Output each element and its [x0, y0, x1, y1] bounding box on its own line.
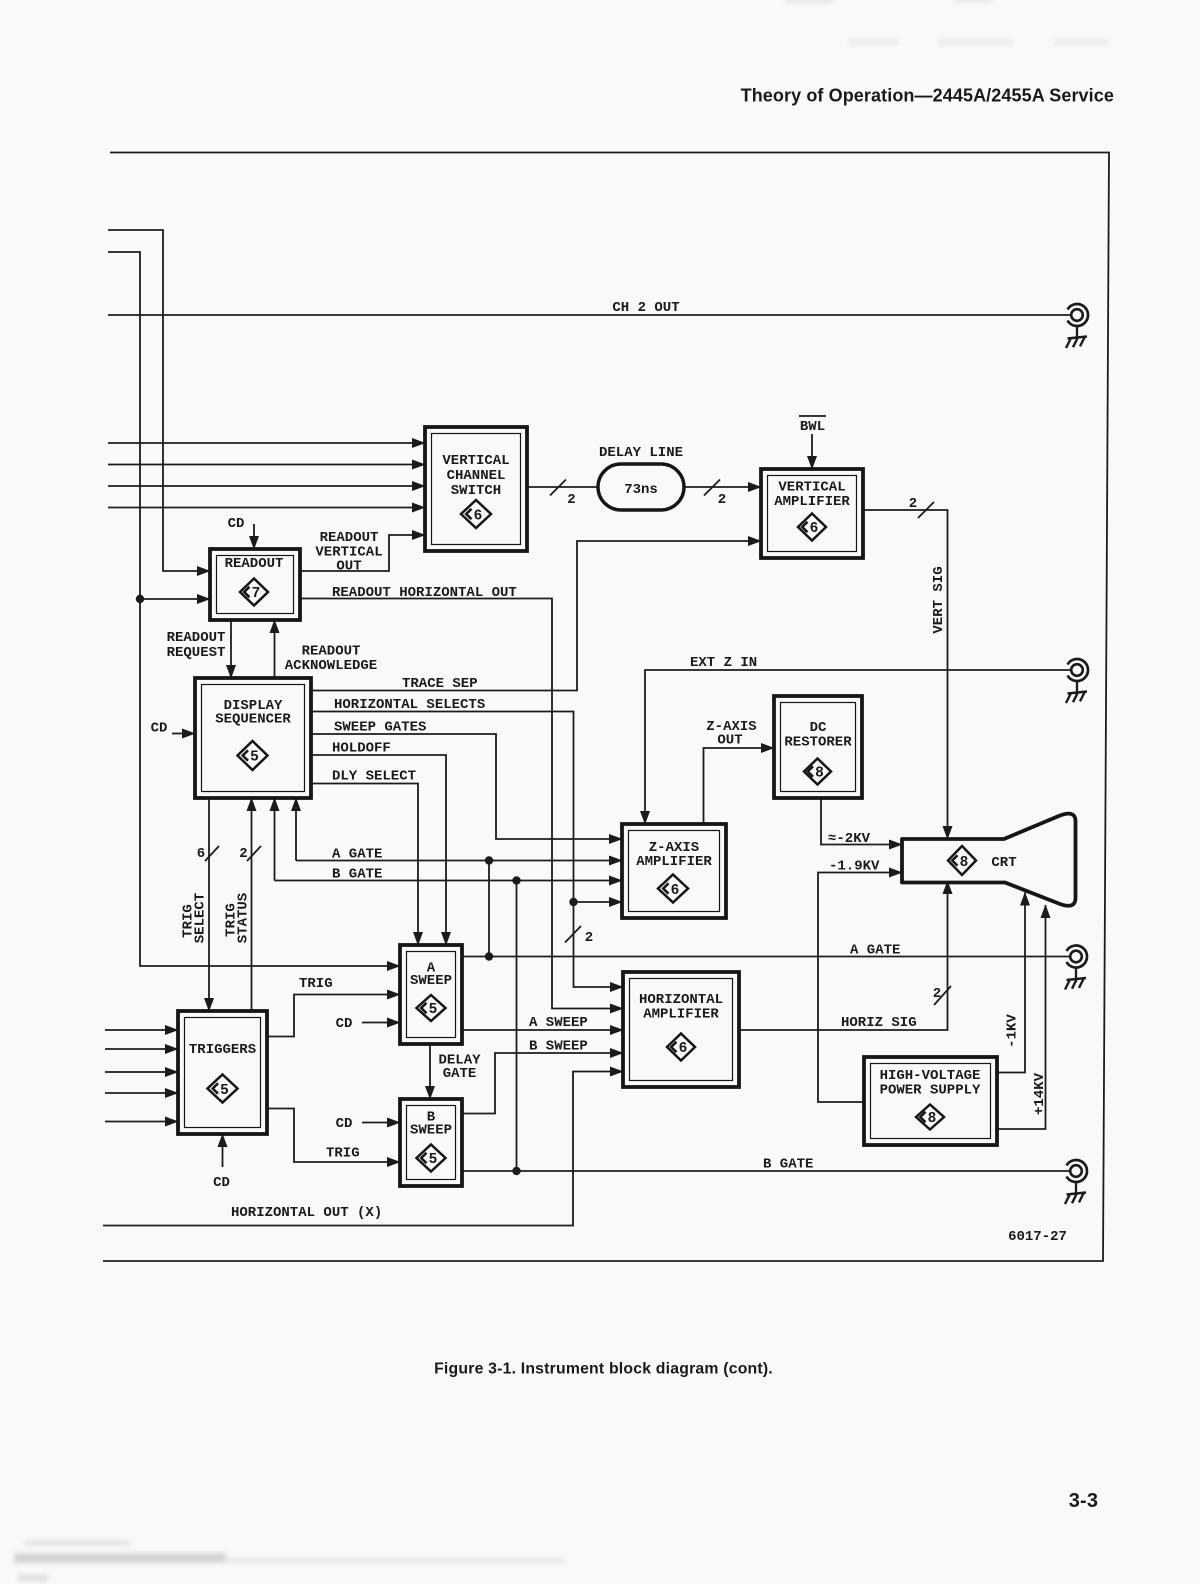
svg-text:≈-2KV: ≈-2KV	[828, 831, 871, 847]
svg-text:SWITCH: SWITCH	[451, 483, 501, 499]
svg-text:2: 2	[933, 986, 941, 1002]
wire triggers input 2	[105, 1048, 178, 1050]
svg-text:REQUEST: REQUEST	[167, 645, 226, 661]
block DC RESTORER	[774, 696, 862, 798]
wire triggers input 4	[105, 1092, 178, 1094]
frame (border, unlabeled)	[103, 153, 1109, 1262]
wire +14KV HV supply to CRT	[997, 905, 1048, 1129]
block READOUT	[210, 549, 300, 620]
svg-text:6: 6	[679, 1041, 688, 1057]
svg-text:8: 8	[928, 1111, 937, 1127]
wire VERT SIG to CRT	[863, 496, 948, 839]
wire vertical channel switch input 2	[108, 464, 425, 466]
svg-text:SEQUENCER: SEQUENCER	[215, 712, 291, 728]
block VERTICAL CHANNEL SWITCH	[425, 427, 527, 551]
svg-text:-1.9KV: -1.9KV	[829, 859, 880, 875]
block TRIGGERS	[178, 1011, 267, 1134]
wire A GATE branch	[296, 798, 622, 957]
svg-text:SWEEP GATES: SWEEP GATES	[334, 720, 426, 736]
svg-text:CRT: CRT	[991, 855, 1016, 871]
svg-text:RESTORER: RESTORER	[784, 735, 852, 751]
svg-text:2: 2	[718, 492, 726, 508]
svg-text:READOUT: READOUT	[225, 556, 284, 572]
wire CD into READOUT	[228, 516, 254, 549]
wire input to READOUT (lower) and to A SWEEP	[108, 252, 400, 966]
connector B GATE with ground	[1065, 1160, 1087, 1204]
wire HORIZONTAL SELECTS	[311, 697, 623, 987]
wire B GATE branch	[275, 798, 623, 1171]
delay line 73ns	[598, 445, 684, 510]
svg-text:5: 5	[250, 750, 259, 766]
svg-text:AMPLIFIER: AMPLIFIER	[774, 494, 850, 510]
svg-text:B SWEEP: B SWEEP	[529, 1039, 588, 1055]
wire HORIZ SIG to CRT	[739, 881, 951, 1031]
wire CD into A sweep	[336, 1016, 400, 1032]
svg-text:7: 7	[252, 586, 261, 602]
svg-text:BWL: BWL	[800, 419, 825, 435]
svg-text:AMPLIFIER: AMPLIFIER	[636, 854, 712, 870]
block DISPLAY SEQUENCER	[195, 678, 311, 798]
svg-text:DLY SELECT: DLY SELECT	[332, 769, 416, 785]
wire vertical channel switch input 4	[108, 507, 425, 509]
svg-text:2: 2	[567, 492, 575, 508]
svg-text:VERT SIG: VERT SIG	[931, 566, 947, 633]
wire triggers input 5	[105, 1121, 178, 1123]
wire DELAY GATE	[430, 1044, 481, 1099]
svg-text:8: 8	[960, 855, 969, 871]
svg-text:2: 2	[239, 846, 247, 862]
connector CH 2 OUT with ground	[1066, 304, 1088, 348]
svg-text:HORIZONTAL OUT (X): HORIZONTAL OUT (X)	[231, 1205, 382, 1221]
wire DLY SELECT	[311, 769, 418, 946]
svg-text:6: 6	[474, 509, 483, 525]
wire A SWEEP to horizontal amplifier	[462, 1015, 623, 1031]
connector EXT Z IN with ground	[1066, 659, 1088, 703]
wire triggers input 3	[105, 1071, 178, 1073]
svg-text:CD: CD	[228, 516, 245, 532]
wire B GATE from B sweep to connector	[462, 1157, 1070, 1173]
svg-text:SELECT: SELECT	[193, 893, 209, 943]
wire vertical channel switch input 1	[108, 442, 425, 444]
svg-text:TRACE SEP: TRACE SEP	[402, 676, 478, 692]
wire HOLDOFF	[311, 741, 446, 946]
wire READOUT VERTICAL OUT	[300, 530, 425, 575]
junction B gate at output line	[512, 1167, 520, 1175]
svg-text:5: 5	[429, 1152, 438, 1168]
wire Z-AXIS OUT to DC restorer	[704, 719, 775, 824]
block HORIZONTAL AMPLIFIER	[623, 972, 739, 1087]
svg-text:SWEEP: SWEEP	[410, 973, 452, 989]
svg-text:HORIZONTAL SELECTS: HORIZONTAL SELECTS	[334, 697, 485, 713]
svg-text:6: 6	[671, 883, 680, 899]
svg-text:HORIZ SIG: HORIZ SIG	[841, 1015, 917, 1031]
svg-text:OUT: OUT	[336, 559, 361, 575]
wire delay line to vertical amplifier	[684, 480, 761, 509]
wire vertical channel switch input 3	[108, 485, 425, 487]
svg-text:SWEEP: SWEEP	[410, 1123, 452, 1139]
svg-text:5: 5	[429, 1002, 438, 1018]
block B SWEEP	[400, 1099, 462, 1186]
svg-text:2: 2	[585, 930, 593, 946]
svg-text:2: 2	[909, 496, 917, 512]
svg-text:Figure 3-1. Instrument block d: Figure 3-1. Instrument block diagram (co…	[434, 1361, 773, 1378]
svg-text:READOUT: READOUT	[167, 630, 226, 646]
wire -1KV HV supply to CRT	[997, 893, 1025, 1073]
wire TRIG to B sweep	[267, 1109, 400, 1163]
junction B gate at upper line	[512, 876, 520, 884]
svg-text:A GATE: A GATE	[332, 847, 382, 863]
junction on READOUT input	[136, 595, 144, 603]
svg-text:AMPLIFIER: AMPLIFIER	[643, 1007, 719, 1023]
svg-text:CH 2 OUT: CH 2 OUT	[612, 300, 679, 316]
svg-text:6: 6	[197, 846, 205, 862]
wire HORIZONTAL OUT (X)	[103, 1072, 623, 1226]
wire READOUT ACKNOWLEDGE	[275, 620, 378, 678]
wire -2KV DC restorer to CRT	[821, 798, 902, 847]
wire CH 2 OUT	[108, 300, 1071, 316]
svg-text:6: 6	[810, 521, 819, 537]
svg-text:POWER SUPPLY: POWER SUPPLY	[880, 1083, 981, 1099]
svg-text:OUT: OUT	[717, 733, 742, 749]
wire TRIG SELECT	[181, 798, 220, 1011]
wire READOUT REQUEST	[167, 620, 231, 678]
svg-text:TRIG: TRIG	[326, 1146, 360, 1162]
svg-text:8: 8	[815, 766, 824, 782]
wire CD into B sweep	[336, 1116, 400, 1132]
block VERTICAL AMPLIFIER	[761, 469, 863, 558]
wire TRIG STATUS	[224, 798, 262, 1011]
junction A gate at output line	[485, 952, 493, 960]
wire SWEEP GATES	[311, 720, 622, 840]
svg-text:CD: CD	[336, 1116, 353, 1132]
svg-text:A GATE: A GATE	[850, 943, 900, 959]
wire READOUT HORIZONTAL OUT	[300, 585, 623, 1009]
svg-text:TRIGGERS: TRIGGERS	[189, 1042, 256, 1058]
svg-text:HOLDOFF: HOLDOFF	[332, 741, 391, 757]
svg-text:CD: CD	[151, 721, 168, 737]
wire -1.9KV HV supply to CRT	[818, 859, 902, 1103]
CRT	[902, 814, 1076, 906]
svg-text:+14KV: +14KV	[1032, 1072, 1048, 1115]
wire triggers input 1	[105, 1029, 178, 1031]
svg-text:CD: CD	[336, 1016, 353, 1032]
svg-text:73ns: 73ns	[624, 482, 658, 498]
svg-text:B GATE: B GATE	[332, 867, 382, 883]
svg-text:DELAY LINE: DELAY LINE	[599, 445, 683, 461]
svg-text:3-3: 3-3	[1069, 1490, 1099, 1512]
net BWL input	[799, 416, 826, 469]
wire TRIG to A sweep	[267, 976, 400, 1037]
block Z-AXIS AMPLIFIER	[622, 824, 726, 918]
junction horizontal selects to Z-axis	[569, 898, 577, 906]
wire EXT Z IN	[645, 655, 1071, 824]
svg-text:CHANNEL: CHANNEL	[447, 468, 506, 484]
svg-text:EXT Z IN: EXT Z IN	[690, 655, 757, 671]
svg-text:A SWEEP: A SWEEP	[529, 1015, 588, 1031]
wire TRACE SEP	[311, 541, 761, 692]
svg-text:VERTICAL: VERTICAL	[442, 453, 509, 469]
svg-text:GATE: GATE	[443, 1066, 477, 1082]
wire VCS to delay line	[527, 480, 598, 509]
svg-text:5: 5	[220, 1083, 229, 1099]
svg-text:-1KV: -1KV	[1005, 1014, 1021, 1048]
block A SWEEP	[400, 945, 462, 1044]
svg-text:CD: CD	[213, 1175, 230, 1191]
svg-text:ACKNOWLEDGE: ACKNOWLEDGE	[285, 658, 377, 674]
svg-text:TRIG: TRIG	[299, 976, 333, 992]
wire B SWEEP to horizontal amplifier	[462, 1039, 623, 1114]
svg-text:6017-27: 6017-27	[1008, 1229, 1067, 1245]
svg-text:READOUT HORIZONTAL OUT: READOUT HORIZONTAL OUT	[332, 585, 517, 601]
wire CD into TRIGGERS	[213, 1134, 230, 1191]
svg-text:B GATE: B GATE	[763, 1157, 813, 1173]
wire A GATE from A sweep to connector	[462, 943, 1070, 959]
svg-text:STATUS: STATUS	[236, 893, 252, 943]
junction A gate at upper line	[485, 856, 493, 864]
wire CD into display sequencer	[151, 721, 195, 737]
wire input to READOUT (upper)	[108, 230, 210, 571]
block HIGH-VOLTAGE POWER SUPPLY	[864, 1057, 997, 1145]
connector A GATE with ground	[1065, 946, 1087, 990]
svg-text:Theory of Operation—2445A/2455: Theory of Operation—2445A/2455A Service	[741, 86, 1114, 106]
